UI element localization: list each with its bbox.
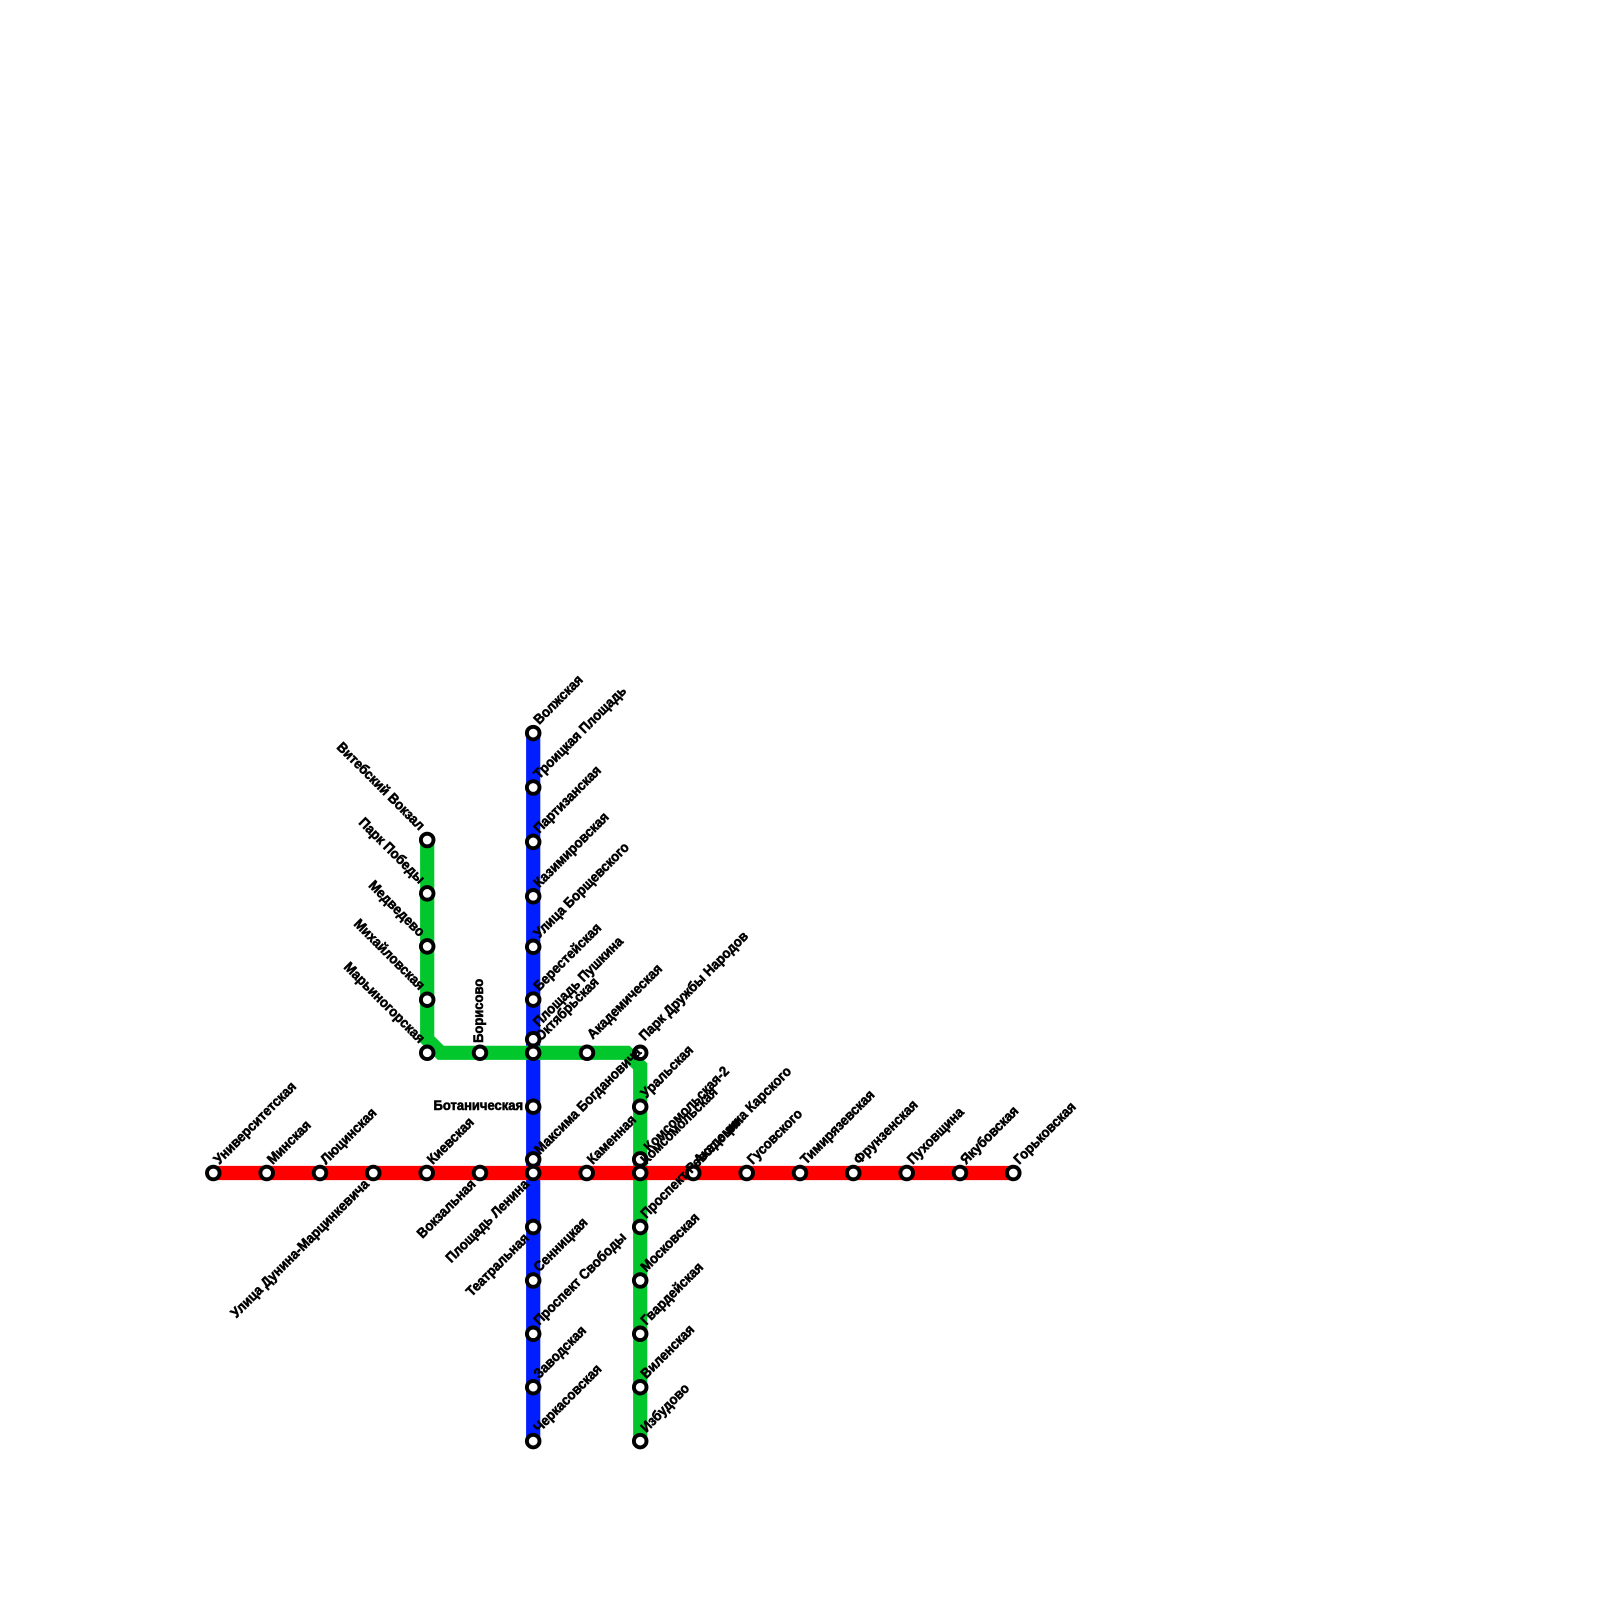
- station Московская: [634, 1274, 647, 1287]
- station Партизанская: [527, 836, 540, 849]
- station Витебский Вокзал: [421, 834, 434, 847]
- station markers: [207, 727, 1020, 1448]
- station Пуховщина: [900, 1167, 913, 1180]
- station Улица Борщевского: [527, 941, 540, 954]
- station Академическая: [581, 1047, 594, 1060]
- svg-text:Борисово: Борисово: [470, 979, 486, 1043]
- station Гвардейская: [634, 1328, 647, 1341]
- station Театральная: [527, 1221, 540, 1234]
- station Площадь Ленина: [527, 1167, 540, 1180]
- station Уральская: [634, 1100, 647, 1113]
- station Вокзальная: [474, 1167, 487, 1180]
- station Марьиногорская: [421, 1047, 434, 1060]
- station Заводская: [527, 1381, 540, 1394]
- station Максима Богдановича: [527, 1153, 540, 1166]
- station Парк Победы: [421, 887, 434, 900]
- station Сенницкая: [527, 1274, 540, 1287]
- blue metro line: [526, 733, 540, 1441]
- station Комсомольская: [634, 1167, 647, 1180]
- station Виленская: [634, 1381, 647, 1394]
- station Казимировская: [527, 890, 540, 903]
- station Парк Дружбы Народов: [634, 1047, 647, 1060]
- station Тимирязевская: [794, 1167, 807, 1180]
- station Черкасовская: [527, 1435, 540, 1448]
- station Гусовского: [740, 1167, 753, 1180]
- station Проспект Революции: [634, 1221, 647, 1234]
- red metro line: [213, 1166, 1013, 1180]
- station Университетская: [207, 1167, 220, 1180]
- station Люцинская: [314, 1167, 327, 1180]
- station Комсомольская-2: [634, 1153, 647, 1166]
- station Якубовская: [954, 1167, 967, 1180]
- green metro line: [427, 840, 640, 1441]
- station Проспект Свободы: [527, 1328, 540, 1341]
- station Каменная: [580, 1167, 593, 1180]
- station Октябрьская: [527, 1047, 540, 1060]
- station Минская: [260, 1167, 273, 1180]
- station Волжская: [527, 727, 540, 740]
- station Ботаническая: [527, 1100, 540, 1113]
- station Берестейская: [527, 993, 540, 1006]
- station Троицкая Площадь: [527, 781, 540, 794]
- station Академика Карского: [687, 1167, 700, 1180]
- station Медведево: [421, 940, 434, 953]
- station Фрунзенская: [847, 1167, 860, 1180]
- station labels: [210, 671, 1079, 1435]
- station Избудово: [634, 1435, 647, 1448]
- station Площадь Пушкина: [527, 1033, 540, 1046]
- svg-text:Ботаническая: Ботаническая: [434, 1097, 524, 1113]
- station Улица Дунина-Марцинкевича: [367, 1167, 380, 1180]
- station Горьковская: [1007, 1167, 1020, 1180]
- station Борисово: [474, 1047, 487, 1060]
- station Киевская: [420, 1167, 433, 1180]
- station Михайловская: [421, 993, 434, 1006]
